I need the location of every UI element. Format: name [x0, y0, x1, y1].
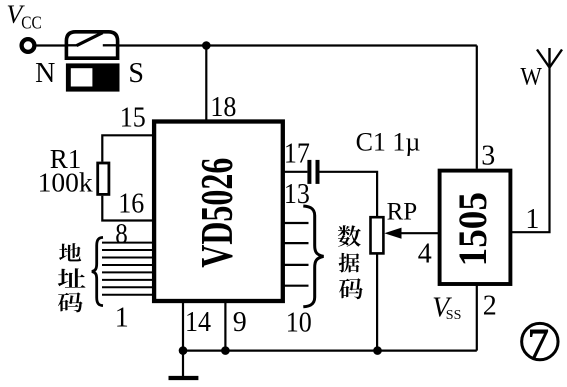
svg-text:13: 13 [284, 179, 310, 210]
IC U1 VD5026 body [154, 122, 283, 302]
capacitor C1 plates [309, 160, 317, 184]
address input lines pins 8..1 [102, 243, 152, 295]
label 址 (address-code char 2) [58, 268, 86, 287]
svg-text:14: 14 [185, 307, 211, 338]
label 码 (data-code char 3) [339, 278, 363, 299]
wire R1 to pin 16 [102, 196, 154, 221]
IC U2 1505 body [440, 171, 511, 284]
svg-text:S: S [128, 58, 144, 89]
wire pin 14 [182, 303, 184, 351]
figure number circle 7 [522, 321, 558, 368]
svg-text:N: N [35, 58, 55, 89]
svg-text:SS: SS [446, 308, 462, 323]
label 据 (data-code char 2) [339, 253, 360, 273]
wire VCC rail to pin 3 [476, 46, 478, 169]
label VSS [432, 293, 461, 324]
svg-text:VD5026: VD5026 [191, 158, 242, 268]
svg-text:1: 1 [115, 303, 129, 334]
svg-text:C1 1µ: C1 1µ [356, 127, 421, 156]
wire C1 to RP [320, 172, 378, 217]
wiper arrowhead [384, 228, 401, 239]
junction at pin 18 [202, 41, 211, 50]
terminal (VCC input) [22, 39, 35, 52]
label VCC [6, 0, 41, 33]
wire RP to bottom rail [376, 253, 378, 350]
label 数 (data-code char 1) [338, 225, 361, 246]
ground symbol [169, 351, 199, 378]
svg-text:W: W [520, 62, 542, 91]
bottom ground rail [183, 350, 477, 352]
svg-text:4: 4 [418, 238, 432, 269]
svg-text:7: 7 [528, 321, 549, 368]
wire pin 2 to ground rail [476, 284, 478, 351]
label 地 (address-code char 1) [59, 243, 81, 261]
resistor R1 body [98, 163, 109, 194]
svg-text:10: 10 [286, 307, 312, 338]
svg-text:15: 15 [120, 103, 146, 134]
svg-text:18: 18 [210, 92, 236, 123]
junction RP line [373, 346, 382, 355]
wire pin 18 [205, 46, 207, 123]
wire terminal to reed switch [37, 44, 67, 46]
wire reed switch to VCC rail [118, 44, 477, 46]
wire pin 15 to R1 [102, 135, 154, 161]
data-code brace [303, 206, 323, 307]
svg-text:9: 9 [233, 307, 247, 338]
svg-text:2: 2 [483, 291, 497, 322]
wire pin 9 [224, 303, 226, 351]
svg-text:100k: 100k [38, 167, 93, 198]
svg-text:1505: 1505 [452, 192, 495, 266]
data output lines pins 13..10 [283, 223, 309, 286]
svg-text:3: 3 [481, 140, 495, 171]
svg-text:RP: RP [387, 199, 418, 226]
svg-text:16: 16 [118, 188, 144, 219]
reed switch S1 envelope [66, 32, 117, 58]
junction pin 9 [221, 346, 230, 355]
label 码 (address-code char 3) [58, 292, 83, 312]
junction pin 14 / ground [179, 346, 188, 355]
antenna W [537, 48, 562, 68]
potentiometer RP body [371, 217, 384, 253]
reed switch S1 contacts [66, 33, 117, 46]
magnet (N-S bar) [66, 63, 120, 91]
wire pin 1 to antenna [510, 67, 549, 232]
wiper wire pin 4 to RP [400, 232, 440, 234]
svg-text:8: 8 [115, 219, 128, 250]
wire pin 17 to C1 [283, 171, 308, 173]
address-code brace [92, 237, 103, 305]
svg-text:17: 17 [284, 139, 310, 170]
svg-text:1: 1 [525, 204, 539, 235]
svg-text:CC: CC [21, 13, 42, 33]
